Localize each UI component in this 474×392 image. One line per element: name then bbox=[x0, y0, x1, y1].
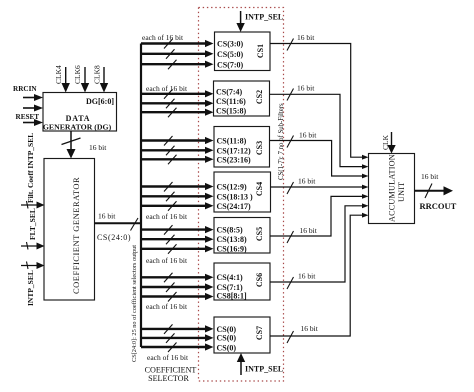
svg-text:CS(8:5): CS(8:5) bbox=[217, 226, 244, 235]
svg-text:CS(7:0): CS(7:0) bbox=[217, 61, 244, 70]
dashed box COEFFICIENT SELECTOR bbox=[199, 8, 284, 382]
svg-text:CS(24:0): CS(24:0) bbox=[97, 233, 131, 242]
svg-text:FLT_SEL: FLT_SEL bbox=[28, 208, 37, 240]
svg-text:CS(15:8): CS(15:8) bbox=[216, 107, 247, 116]
clock input CLK6 bbox=[73, 65, 89, 93]
wire DG to CG bbox=[62, 131, 108, 159]
block CS2 bbox=[214, 81, 270, 116]
block COEFFICIENT GENERATOR bbox=[44, 159, 95, 301]
input arrow to CG 3 bbox=[21, 262, 45, 270]
CLK arrow into AU bbox=[381, 132, 396, 154]
svg-text:16 bit: 16 bit bbox=[299, 131, 317, 140]
block CS1 bbox=[215, 32, 271, 71]
wire CS2 to AU bbox=[270, 84, 369, 170]
output RRCOUT bbox=[415, 172, 457, 211]
clock input CLK8 bbox=[93, 65, 109, 93]
svg-text:16 bit: 16 bit bbox=[297, 84, 315, 93]
svg-text:each of 16 bit: each of 16 bit bbox=[146, 212, 188, 221]
svg-text:INTP_SEL: INTP_SEL bbox=[245, 365, 283, 374]
svg-text:CS7: CS7 bbox=[255, 326, 264, 340]
svg-text:CS(11:6): CS(11:6) bbox=[216, 97, 246, 106]
wire CS7 to AU bbox=[270, 213, 369, 343]
bus arrows group 3 to CS3 bbox=[141, 136, 214, 164]
input RRCIN bbox=[13, 85, 43, 101]
bus arrows group 1 to CS1 bbox=[141, 39, 214, 69]
svg-text:CS(11:8): CS(11:8) bbox=[217, 137, 247, 146]
block CS3 bbox=[214, 127, 270, 168]
svg-text:CS5: CS5 bbox=[255, 227, 264, 241]
label each of 16 bit (below group 7) bbox=[147, 353, 189, 362]
label each of 16 bit (below group 5) bbox=[146, 256, 188, 265]
input RESET bbox=[16, 113, 44, 126]
svg-text:CS(18:13 ): CS(18:13 ) bbox=[217, 193, 254, 202]
label COEFFICIENT SELECTOR bbox=[145, 366, 197, 384]
input arrow to CG 2 bbox=[21, 242, 45, 250]
input arrow to CG 1 bbox=[21, 201, 45, 209]
svg-text:CS(17:12): CS(17:12) bbox=[217, 147, 252, 156]
svg-text:CS(1-7): 7 no of Sub-Filters: CS(1-7): 7 no of Sub-Filters bbox=[278, 103, 285, 180]
wire CS6 to AU bbox=[270, 203, 369, 289]
block CS5 bbox=[214, 218, 270, 254]
INTP_SEL arrow into CS7 bbox=[237, 353, 283, 375]
svg-text:16 bit: 16 bit bbox=[298, 177, 316, 186]
svg-text:SELECTOR: SELECTOR bbox=[148, 374, 189, 383]
vertical bus line bbox=[140, 44, 142, 348]
wire CS4 to AU bbox=[271, 177, 369, 195]
svg-text:CLK4: CLK4 bbox=[54, 65, 63, 84]
svg-text:each of 16 bit: each of 16 bit bbox=[146, 84, 188, 93]
label FLT_SEL bbox=[28, 208, 37, 240]
svg-text:CS(23:16): CS(23:16) bbox=[217, 156, 252, 165]
svg-text:CS(0): CS(0) bbox=[217, 334, 237, 343]
svg-text:CS(7:4): CS(7:4) bbox=[216, 88, 243, 97]
input Filt.Coeff (middle DG arrow) bbox=[23, 105, 43, 112]
label each of 16 bit (group 1) bbox=[142, 33, 184, 42]
bus arrows group 7 to CS7 bbox=[141, 324, 214, 352]
block CS6 bbox=[214, 263, 270, 301]
svg-text:COEFFICIENT GENERATOR: COEFFICIENT GENERATOR bbox=[71, 177, 81, 294]
svg-text:16 bit: 16 bit bbox=[300, 226, 318, 235]
INTP_SEL arrow into CS1 bbox=[236, 11, 283, 32]
svg-text:CS1: CS1 bbox=[256, 44, 265, 58]
block CS7 bbox=[214, 317, 270, 353]
svg-text:16 bit: 16 bit bbox=[298, 272, 316, 281]
block CS4 bbox=[214, 172, 271, 212]
bus arrows group 5 to CS5 bbox=[141, 225, 214, 254]
label Filt. Coeff INTP_SEL bbox=[26, 133, 35, 203]
svg-text:CS4: CS4 bbox=[255, 182, 264, 196]
svg-text:DG[6:0]: DG[6:0] bbox=[86, 97, 114, 106]
svg-text:CS(0): CS(0) bbox=[217, 344, 237, 353]
svg-text:CS(16:9): CS(16:9) bbox=[217, 245, 248, 254]
svg-text:INTP_SEL: INTP_SEL bbox=[26, 270, 35, 306]
svg-text:each of 16 bit: each of 16 bit bbox=[142, 33, 184, 42]
svg-text:CS[24:0]: 25 no of coefficient: CS[24:0]: 25 no of coefficient selectors… bbox=[131, 245, 138, 362]
svg-text:GENERATOR (DG): GENERATOR (DG) bbox=[43, 123, 112, 132]
bus arrows group 2 to CS2 bbox=[141, 89, 214, 117]
svg-text:CS(4:1): CS(4:1) bbox=[217, 273, 244, 282]
wire CS5 to AU bbox=[270, 194, 369, 243]
svg-text:each of 16 bit: each of 16 bit bbox=[147, 353, 189, 362]
svg-text:INTP_SEL: INTP_SEL bbox=[245, 13, 283, 22]
svg-text:CS8[8:1]: CS8[8:1] bbox=[217, 292, 248, 301]
svg-text:CS(13:8): CS(13:8) bbox=[217, 235, 248, 244]
svg-text:CS6: CS6 bbox=[255, 273, 264, 287]
svg-text:CS(3:0): CS(3:0) bbox=[217, 40, 244, 49]
wire CG to bus CS(24:0) bbox=[95, 212, 143, 243]
svg-text:16 bit: 16 bit bbox=[297, 33, 315, 42]
svg-text:CLK6: CLK6 bbox=[73, 65, 82, 84]
svg-text:CS(5:0): CS(5:0) bbox=[217, 50, 244, 59]
wire CS3 to AU bbox=[270, 131, 369, 179]
label CS[24:0]: 25 no of coefficient selectors output bbox=[131, 245, 138, 362]
svg-text:CS(24:17): CS(24:17) bbox=[217, 202, 252, 211]
label each of 16 bit (below group 4) bbox=[146, 212, 188, 221]
bus arrows group 6 to CS6 bbox=[141, 273, 214, 302]
svg-text:RRCIN: RRCIN bbox=[13, 85, 37, 93]
svg-text:each of 16 bit: each of 16 bit bbox=[146, 302, 188, 311]
svg-text:16 bit: 16 bit bbox=[98, 212, 116, 221]
svg-text:CS(12:9): CS(12:9) bbox=[217, 183, 248, 192]
svg-text:16 bit: 16 bit bbox=[89, 143, 107, 152]
svg-text:Filt. Coeff INTP_SEL: Filt. Coeff INTP_SEL bbox=[26, 133, 35, 203]
svg-text:RRCOUT: RRCOUT bbox=[420, 201, 457, 211]
wire CS1 to AU bbox=[270, 33, 369, 160]
clock input CLK4 bbox=[54, 65, 70, 93]
svg-text:CS2: CS2 bbox=[255, 90, 264, 104]
svg-text:16 bit: 16 bit bbox=[421, 172, 439, 181]
label each of 16 bit (below group 6) bbox=[146, 302, 188, 311]
label each of 16 bit (group 2) bbox=[146, 84, 188, 93]
bus arrows group 4 to CS4 bbox=[141, 182, 214, 211]
svg-text:CS3: CS3 bbox=[255, 141, 264, 155]
svg-text:each of 16 bit: each of 16 bit bbox=[146, 256, 188, 265]
svg-text:16 bit: 16 bit bbox=[301, 324, 319, 333]
svg-text:CS(7:1): CS(7:1) bbox=[217, 283, 244, 292]
block DATA GENERATOR (DG) bbox=[43, 93, 117, 132]
label CS(1-7): 7 no of Sub-Filters bbox=[278, 103, 285, 180]
block ACCUMULATION UNIT bbox=[369, 154, 415, 224]
svg-text:CLK8: CLK8 bbox=[93, 65, 102, 84]
label INTP_SEL (left) bbox=[26, 270, 35, 306]
